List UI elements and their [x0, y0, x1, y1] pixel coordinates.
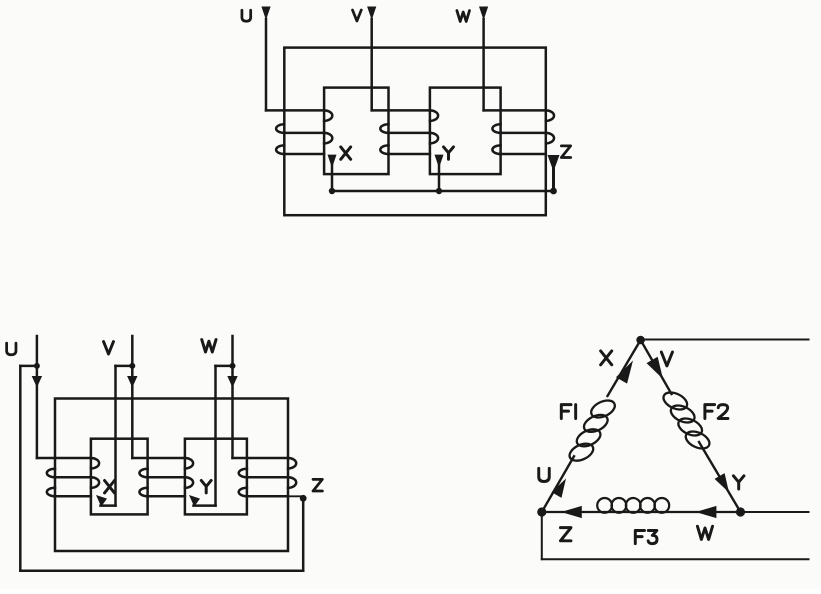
arrow from V on right leg: [647, 357, 663, 379]
wire: W supply lead: [231, 336, 234, 458]
bottom diagram: terminal label V: [104, 342, 114, 354]
wire: X lead to star bus: [331, 165, 334, 191]
node Y arrow (top diagram): [435, 155, 444, 168]
label Y (bottom diagram): [201, 480, 211, 492]
coil F2 (delta): [661, 389, 690, 413]
wire: U lead down: [265, 19, 268, 110]
label Z (bottom diagram): [313, 479, 322, 491]
junction dot V: [129, 363, 135, 369]
top diagram: terminal arrow U: [261, 7, 270, 21]
node Z arrow (top diagram): [548, 155, 560, 172]
arrow toward W junction on bottom leg: [696, 506, 717, 518]
coil F3 (delta): [597, 498, 612, 513]
delta: node V/X junction dot (apex): [636, 336, 645, 345]
label Z (delta): [560, 528, 571, 541]
coil V-Y (winding 2, bottom diagram): [132, 457, 185, 460]
label Z (top diagram): [561, 146, 570, 158]
wire: apex to right edge: [641, 339, 809, 341]
coil U-X (winding 1, top diagram): [266, 109, 324, 112]
wire: star-point bus (top diagram): [332, 190, 554, 193]
wire: W branch bottom jog: [194, 504, 216, 507]
wire: V supply lead: [131, 336, 134, 458]
wire: right leg of delta, lower segment (Y side): [699, 442, 741, 512]
wire: U supply lead: [36, 336, 39, 458]
top diagram: terminal label W: [457, 11, 470, 22]
top diagram: terminal label V: [353, 10, 362, 21]
label Y (top diagram): [444, 147, 454, 159]
arrow toward X on left leg: [616, 361, 633, 384]
coil F1 (delta): [588, 397, 617, 421]
wire: W lead down: [482, 19, 485, 110]
label F1: [561, 405, 571, 419]
wire: left leg of delta, lower segment (U side): [542, 456, 574, 512]
top diagram: terminal label U: [242, 10, 251, 21]
top diagram: inner connection loop wire 1: [324, 88, 388, 175]
arrow on W lead: [227, 376, 237, 388]
junction dot X: [329, 188, 335, 194]
junction dot U: [34, 363, 40, 369]
node Y arrow (bottom diagram): [189, 495, 200, 507]
top diagram: terminal arrow V: [367, 7, 376, 21]
top diagram: terminal arrow W: [479, 7, 488, 21]
wire: W branch down to Y: [214, 366, 217, 506]
junction dot W: [230, 363, 236, 369]
label F2: [705, 405, 715, 419]
label X (bottom diagram): [105, 480, 115, 492]
bottom diagram: terminal label W: [202, 340, 216, 352]
wire: right node to right edge: [741, 511, 809, 513]
junction dot Y: [436, 188, 442, 194]
wire: Z lead to right edge: [542, 558, 809, 560]
label Y (delta): [733, 476, 744, 489]
label F3: [635, 530, 644, 543]
coil W-Z (winding 3, bottom diagram): [233, 457, 289, 460]
junction dot Z (bottom diagram): [300, 495, 307, 502]
bottom diagram: outer connection loop wire: [55, 399, 288, 552]
delta: node W/Y junction dot (right): [736, 507, 745, 516]
top diagram: inner connection loop wire 2: [430, 88, 501, 175]
wire: Z drop from left node: [541, 512, 543, 559]
bottom diagram: inner connection loop wire 2: [185, 439, 247, 515]
arrow toward Y on right leg: [715, 473, 729, 492]
node X arrow (top diagram): [328, 155, 337, 168]
top diagram: outer connection loop wire: [284, 48, 546, 216]
wire: V lead down: [370, 19, 373, 110]
bottom diagram: terminal label U: [7, 343, 16, 355]
arrow on V lead: [127, 376, 137, 388]
wire: U branch to Z (left): [20, 365, 37, 368]
arrow on U lead: [32, 376, 42, 388]
wire: U branch down far left: [19, 366, 22, 571]
label X (delta): [601, 351, 612, 365]
wire: Z lead out: [247, 495, 303, 497]
label V (delta): [661, 352, 672, 366]
wire: Z lead down: [302, 498, 305, 570]
wire: Y lead to star bus: [438, 165, 441, 191]
bottom diagram: inner connection loop wire 1: [91, 439, 148, 515]
label W (delta): [697, 526, 712, 539]
coil U-X (winding 1, bottom diagram): [37, 457, 91, 460]
coil V-Y (winding 2, top diagram): [372, 109, 430, 112]
coil W-Z (winding 3, top diagram): [484, 109, 546, 112]
junction dot Z: [550, 188, 557, 195]
arrow toward Z on bottom leg: [561, 506, 582, 518]
wire: V branch bottom jog: [101, 504, 116, 507]
arrow from U on left leg: [552, 479, 566, 498]
wire: V branch down to X: [114, 366, 117, 506]
wire: Z lead to star bus: [552, 167, 555, 191]
node X arrow (bottom diagram): [96, 495, 107, 507]
wire: left leg of delta, upper segment (X side): [608, 340, 641, 396]
wire: W branch jog: [216, 365, 233, 368]
wire: V branch jog: [116, 365, 133, 368]
wire: bottom return bus: [20, 569, 303, 572]
label X (top diagram): [341, 147, 351, 159]
label U (delta): [539, 468, 550, 481]
wire: bottom leg of delta (W to Z): [542, 511, 741, 513]
wire: right leg of delta, upper segment (V side): [641, 340, 672, 394]
delta: node U/Z junction dot (left): [537, 507, 546, 516]
